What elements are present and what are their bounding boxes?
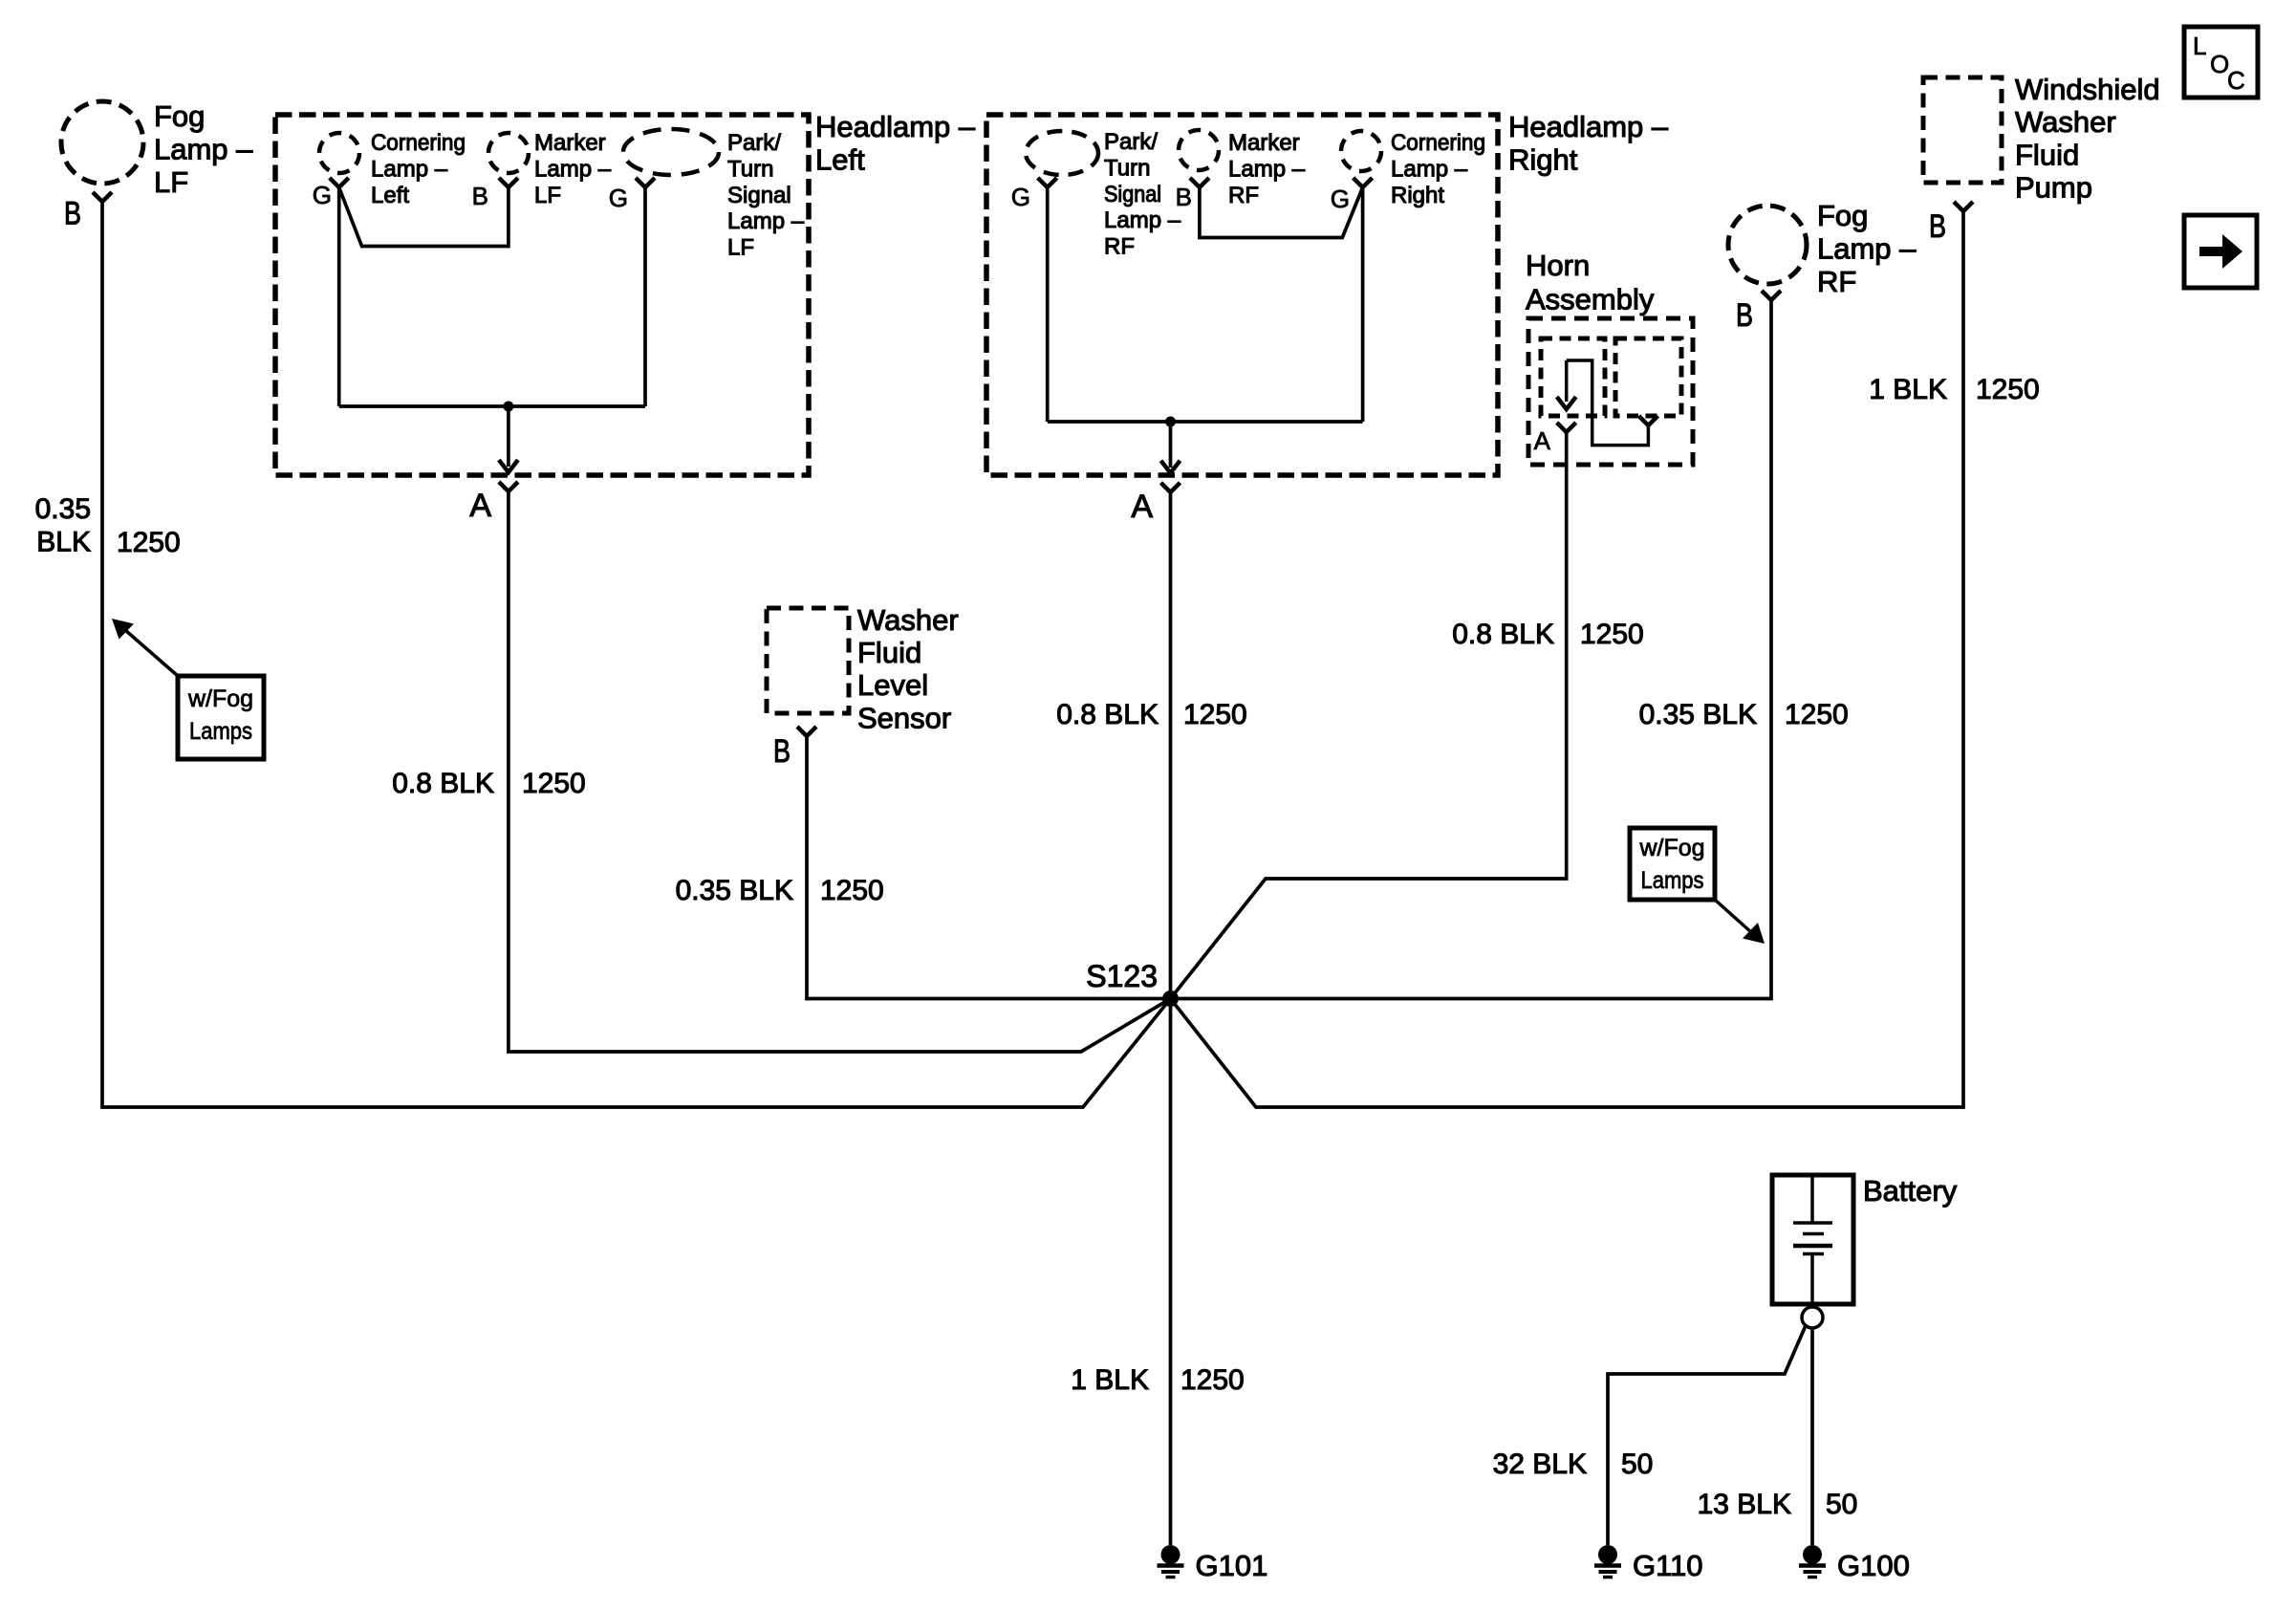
svg-text:w/Fog: w/Fog (1638, 835, 1704, 861)
headlamp left box (275, 115, 809, 475)
svg-text:G110: G110 (1633, 1549, 1703, 1582)
svg-text:Lamp –: Lamp – (534, 156, 612, 182)
label 0.35 BLK 1250 (sensor) (676, 875, 884, 906)
park/turn signal lamp RF (1026, 129, 1181, 260)
wire park/turn-RF G down (1046, 187, 1050, 422)
svg-text:Battery: Battery (1863, 1174, 1958, 1208)
svg-text:B: B (773, 733, 791, 770)
pin A (horn) (1534, 423, 1576, 455)
continuation arrow box (2184, 215, 2257, 288)
windshield washer fluid pump box (1923, 73, 2160, 205)
svg-text:C: C (2227, 66, 2245, 95)
svg-text:G100: G100 (1837, 1549, 1910, 1582)
svg-text:A: A (1534, 426, 1551, 455)
wire cornering-left G down (337, 187, 341, 406)
headlamp right box (986, 115, 1498, 475)
cornering lamp right (1341, 130, 1485, 208)
node S123 (1086, 959, 1179, 1007)
svg-text:Horn: Horn (1526, 249, 1590, 282)
label 1 BLK 1250 (main) (1071, 1364, 1244, 1396)
pin G (park/turn LF) (609, 178, 655, 212)
svg-text:Headlamp –: Headlamp – (1508, 110, 1669, 143)
svg-text:0.35 BLK: 0.35 BLK (676, 875, 793, 906)
battery (1772, 1174, 1958, 1304)
svg-text:0.8 BLK: 0.8 BLK (1056, 699, 1159, 730)
wire bus to A exit (499, 406, 518, 472)
svg-text:Lamp –: Lamp – (727, 208, 805, 234)
svg-text:1250: 1250 (1580, 619, 1644, 650)
wire headlamp-left ground bus (339, 404, 645, 408)
svg-text:1250: 1250 (820, 875, 884, 906)
svg-text:1250: 1250 (1976, 374, 2040, 405)
pin B (fog lamp LF) (64, 192, 112, 232)
svg-text:Park/: Park/ (1104, 129, 1158, 155)
svg-text:Signal: Signal (1104, 182, 1161, 207)
svg-text:A: A (469, 488, 491, 524)
svg-text:1250: 1250 (1180, 1364, 1245, 1396)
pin B (marker RF) (1176, 178, 1209, 211)
svg-text:L: L (2193, 32, 2206, 60)
svg-text:B: B (1929, 208, 1946, 245)
wire sensor to S123 (0.35 BLK) (807, 736, 1171, 999)
svg-text:LF: LF (727, 235, 754, 261)
label headlamp left (815, 110, 976, 177)
w/fog lamps callout box (right) (1630, 828, 1715, 900)
w/fog lamps arrow (right) (1715, 900, 1765, 944)
svg-text:Lamp –: Lamp – (371, 156, 448, 182)
pin G (cornering left) (313, 178, 349, 209)
svg-text:Cornering: Cornering (1391, 130, 1485, 156)
svg-text:Assembly: Assembly (1526, 283, 1655, 316)
pin G (park/turn RF) (1011, 178, 1057, 211)
svg-text:1250: 1250 (1785, 699, 1849, 730)
svg-text:LF: LF (534, 183, 561, 208)
svg-text:B: B (472, 182, 488, 210)
pin B (fluid level sensor) (773, 727, 816, 770)
svg-text:50: 50 (1621, 1448, 1653, 1480)
label headlamp right (1508, 110, 1669, 177)
label 32 BLK 50 (1493, 1448, 1654, 1480)
svg-text:0.8 BLK: 0.8 BLK (1452, 619, 1554, 650)
label 0.35 BLK 1250 (fog RF) (1639, 699, 1849, 730)
wire fog RF to S123 (0.35 BLK) (1171, 300, 1772, 999)
cornering lamp left (319, 130, 466, 208)
wire headlamp-right ground bus (1048, 420, 1363, 424)
svg-text:B: B (1176, 183, 1192, 211)
svg-text:Marker: Marker (534, 130, 606, 156)
label 0.8 BLK 1250 (headlamp left) (392, 768, 586, 799)
svg-text:Right: Right (1391, 183, 1444, 208)
w/fog lamps callout box (left) (178, 676, 264, 759)
svg-text:Marker: Marker (1228, 130, 1300, 156)
label 0.8 BLK 1250 (main) (1056, 699, 1247, 730)
svg-text:32 BLK: 32 BLK (1493, 1448, 1587, 1480)
svg-text:Lamp –: Lamp – (1817, 232, 1917, 266)
wire horn A to S123 (0.8 BLK) (1171, 432, 1567, 999)
svg-text:G101: G101 (1196, 1549, 1268, 1582)
pin B (washer pump) (1929, 202, 1973, 245)
park/turn signal lamp LF (623, 129, 805, 261)
label 1 BLK 1250 (pump) (1869, 374, 2039, 405)
pin G (cornering right) (1331, 178, 1373, 213)
horn assembly outer box (1526, 249, 1693, 465)
svg-text:Sensor: Sensor (857, 701, 951, 734)
label 13 BLK 50 (1698, 1489, 1858, 1520)
label 0.8 BLK 1250 (horn) (1452, 619, 1644, 650)
ground G110 (1594, 1545, 1703, 1582)
horn internal wire (1557, 360, 1649, 446)
svg-text:Headlamp –: Headlamp – (815, 110, 976, 143)
svg-text:LF: LF (154, 165, 188, 199)
ground G101 (1158, 1545, 1268, 1582)
svg-text:0.35: 0.35 (35, 493, 91, 525)
svg-text:Signal: Signal (727, 183, 791, 208)
svg-text:Level: Level (857, 668, 928, 702)
junction (headlamp left bus) (503, 402, 513, 412)
wire cornering-right G down (1361, 187, 1365, 422)
svg-text:Fluid: Fluid (2015, 138, 2079, 171)
wire marker-LF B join (339, 187, 509, 247)
svg-text:Windshield: Windshield (2015, 73, 2160, 106)
svg-text:Washer: Washer (857, 603, 959, 637)
svg-text:A: A (1131, 489, 1153, 525)
svg-text:Right: Right (1508, 143, 1578, 177)
svg-text:1 BLK: 1 BLK (1869, 374, 1947, 405)
wire park/turn-LF G down (643, 187, 647, 406)
junction (headlamp right bus) (1165, 417, 1176, 427)
svg-text:Lamps: Lamps (189, 718, 252, 745)
svg-text:G: G (1331, 185, 1350, 213)
svg-text:Fog: Fog (1817, 199, 1868, 232)
svg-text:Left: Left (371, 183, 409, 208)
fog lamp RF (1728, 199, 1917, 298)
svg-text:RF: RF (1817, 265, 1856, 298)
svg-text:0.35 BLK: 0.35 BLK (1639, 699, 1757, 730)
svg-text:1250: 1250 (117, 527, 181, 558)
svg-text:BLK: BLK (36, 527, 91, 558)
svg-text:1250: 1250 (522, 768, 586, 799)
svg-text:1 BLK: 1 BLK (1071, 1364, 1149, 1396)
svg-text:0.8 BLK: 0.8 BLK (392, 768, 494, 799)
marker lamp RF (1179, 130, 1306, 208)
svg-text:S123: S123 (1086, 959, 1158, 993)
svg-text:Lamp –: Lamp – (1391, 156, 1468, 182)
pin A (headlamp left) (469, 482, 518, 524)
battery negative terminal (1802, 1307, 1823, 1328)
pin B (fog lamp RF) (1736, 291, 1781, 334)
svg-text:Lamp –: Lamp – (154, 133, 253, 166)
pin (horn right) (1638, 416, 1657, 425)
horn inner box left (1541, 338, 1605, 416)
svg-text:RF: RF (1228, 183, 1259, 208)
pin A (headlamp right) (1131, 483, 1180, 525)
svg-text:B: B (1736, 297, 1753, 334)
svg-text:G: G (1011, 183, 1030, 211)
svg-text:G: G (313, 181, 332, 209)
ground G100 (1799, 1545, 1910, 1582)
svg-text:50: 50 (1826, 1489, 1857, 1520)
washer fluid level sensor box (767, 603, 959, 734)
wire pump to S123 (1 BLK) (1171, 211, 1964, 1107)
wire marker-RF B join (1200, 187, 1363, 238)
svg-text:13 BLK: 13 BLK (1698, 1489, 1791, 1520)
svg-text:Cornering: Cornering (371, 130, 466, 156)
svg-text:Park/: Park/ (727, 130, 781, 156)
svg-text:1250: 1250 (1183, 699, 1247, 730)
svg-text:Lamp –: Lamp – (1228, 156, 1306, 182)
svg-text:Washer: Washer (2015, 105, 2116, 139)
svg-text:RF: RF (1104, 234, 1135, 260)
svg-text:Fog: Fog (154, 99, 205, 133)
w/fog lamps arrow (left) (112, 619, 178, 676)
wire headlamp-right A to G101 (0.8 BLK / 1 BLK) (1169, 492, 1173, 1545)
wire headlamp-left A to S123 (0.8 BLK) (509, 491, 1171, 1052)
svg-text:w/Fog: w/Fog (187, 686, 253, 712)
svg-text:Pump: Pump (2015, 171, 2092, 205)
svg-text:Fluid: Fluid (857, 636, 921, 669)
svg-text:Left: Left (815, 143, 865, 177)
wire battery to G100 (13 BLK) (1810, 1328, 1814, 1545)
marker lamp LF (488, 130, 612, 208)
svg-text:B: B (64, 196, 81, 232)
svg-text:G: G (609, 184, 628, 212)
label 0.35 BLK 1250 (fog LF) (35, 493, 181, 558)
LOC reference box (2184, 27, 2258, 98)
wire battery to G110 (32 BLK) (1608, 1326, 1806, 1546)
svg-text:Lamp –: Lamp – (1104, 207, 1181, 233)
svg-text:Turn: Turn (727, 156, 773, 182)
svg-text:Turn: Turn (1104, 155, 1150, 181)
pin B (marker LF) (472, 178, 518, 210)
wire fog lamp LF to S123 (0.35 BLK) (102, 202, 1171, 1107)
wire bus to A exit (right) (1161, 422, 1180, 473)
svg-text:Lamps: Lamps (1641, 867, 1704, 894)
fog lamp LF (61, 99, 253, 199)
horn inner box right (1615, 338, 1681, 416)
